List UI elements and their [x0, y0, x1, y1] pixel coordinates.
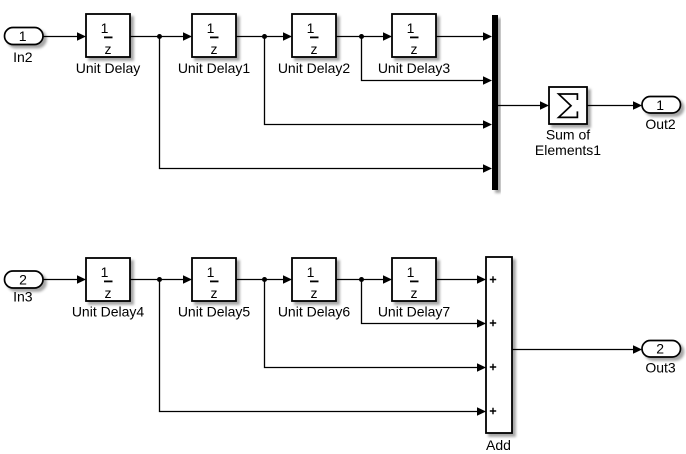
svg-text:Unit Delay5: Unit Delay5 — [178, 304, 251, 320]
input port In2 — [5, 28, 44, 65]
wire Unit Delay6 to Unit Delay7 — [336, 275, 392, 284]
svg-text:In2: In2 — [13, 49, 33, 65]
wire Sum of Elements1 to Out2 — [587, 101, 642, 110]
unit delay block Unit Delay5 — [178, 258, 251, 320]
unit delay block Unit Delay — [76, 14, 141, 76]
sum block Sum of Elements1 — [535, 87, 601, 158]
svg-text:Add: Add — [486, 437, 511, 453]
junction node after Unit Delay6 — [359, 277, 364, 282]
svg-text:Unit Delay3: Unit Delay3 — [378, 60, 451, 76]
svg-text:1: 1 — [207, 264, 215, 280]
svg-text:z: z — [211, 285, 218, 301]
output port Out2 — [642, 97, 681, 133]
wire Unit Delay2 to Unit Delay3 — [336, 32, 392, 41]
svg-text:Out2: Out2 — [645, 116, 676, 132]
junction node after Unit Delay2 — [359, 34, 364, 39]
wire junction Unit Delay tap to Mux port 4 — [160, 37, 493, 173]
junction node after Unit Delay — [157, 34, 162, 39]
svg-text:1: 1 — [307, 264, 315, 280]
svg-text:1: 1 — [407, 264, 415, 280]
wire Unit Delay7 to Add port 1 — [436, 275, 486, 284]
svg-text:1: 1 — [307, 20, 315, 36]
svg-text:1: 1 — [207, 20, 215, 36]
svg-text:1: 1 — [407, 20, 415, 36]
wire junction Unit Delay6 tap to Add port 2 — [362, 280, 487, 328]
wire junction Unit Delay5 tap to Add port 3 — [265, 280, 487, 372]
svg-text:1: 1 — [656, 97, 664, 113]
mux bar — [492, 15, 498, 190]
svg-text:Unit Delay6: Unit Delay6 — [278, 304, 351, 320]
wire In2 to Unit Delay — [43, 32, 86, 41]
svg-text:Elements1: Elements1 — [535, 142, 601, 158]
wire junction Unit Delay4 tap to Add port 4 — [160, 280, 487, 416]
wire junction Unit Delay2 tap to Mux port 2 — [362, 37, 493, 85]
add block Add — [486, 257, 512, 453]
svg-text:1: 1 — [19, 28, 27, 44]
wire Unit Delay5 to Unit Delay6 — [236, 275, 292, 284]
svg-text:Out3: Out3 — [645, 360, 676, 376]
svg-text:z: z — [311, 285, 318, 301]
svg-text:Unit Delay4: Unit Delay4 — [72, 304, 145, 320]
unit delay block Unit Delay1 — [178, 14, 251, 76]
svg-text:Sum of: Sum of — [546, 127, 590, 143]
unit delay block Unit Delay2 — [278, 14, 351, 76]
svg-text:z: z — [411, 41, 418, 57]
svg-text:Unit Delay2: Unit Delay2 — [278, 60, 351, 76]
wire Unit Delay4 to Unit Delay5 — [130, 275, 192, 284]
svg-text:z: z — [105, 285, 112, 301]
wire Unit Delay1 to Unit Delay2 — [236, 32, 292, 41]
svg-text:z: z — [105, 41, 112, 57]
wire junction Unit Delay1 tap to Mux port 3 — [265, 37, 493, 129]
svg-text:z: z — [311, 41, 318, 57]
wire In3 to Unit Delay4 — [43, 275, 86, 284]
unit delay block Unit Delay7 — [378, 258, 451, 320]
wire Unit Delay to Unit Delay1 — [130, 32, 192, 41]
svg-text:z: z — [211, 41, 218, 57]
junction node after Unit Delay4 — [157, 277, 162, 282]
wire Add to Out3 — [512, 345, 642, 354]
svg-text:Unit Delay: Unit Delay — [76, 60, 141, 76]
unit delay block Unit Delay6 — [278, 258, 351, 320]
svg-text:Unit Delay1: Unit Delay1 — [178, 60, 251, 76]
svg-text:In3: In3 — [13, 289, 33, 305]
unit delay block Unit Delay3 — [378, 14, 451, 76]
wire Mux to Sum of Elements1 — [498, 101, 549, 110]
svg-text:2: 2 — [19, 271, 27, 287]
output port Out3 — [642, 341, 681, 376]
svg-text:2: 2 — [656, 341, 664, 357]
svg-text:Unit Delay7: Unit Delay7 — [378, 304, 451, 320]
junction node after Unit Delay5 — [262, 277, 267, 282]
wire Unit Delay3 to Mux port 1 — [436, 32, 492, 41]
svg-text:1: 1 — [101, 264, 109, 280]
junction node after Unit Delay1 — [262, 34, 267, 39]
input port In3 — [5, 271, 44, 305]
unit delay block Unit Delay4 — [72, 258, 145, 320]
svg-text:1: 1 — [101, 20, 109, 36]
svg-text:z: z — [411, 285, 418, 301]
